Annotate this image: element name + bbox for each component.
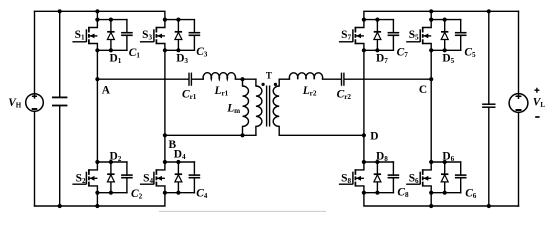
capacitor C1 (snubber) [121, 20, 133, 51]
scan artifact faint line (decorative) [159, 210, 326, 212]
wire node B to primary bottom [165, 134, 256, 136]
wire S4 cell top rail segment [165, 161, 195, 163]
capacitor C6 (snubber) [455, 162, 467, 193]
diode D7 (body diode) [374, 20, 381, 51]
wire S6 cell top rail segment [431, 161, 461, 163]
svg-text:C: C [419, 84, 427, 96]
transistor S5 (MOSFET) [406, 20, 431, 51]
capacitor Cr2 (series resonant) [342, 73, 344, 86]
wire S7 cell top rail segment [364, 19, 394, 21]
label minus terminal V_L [535, 116, 539, 118]
svg-text:A: A [102, 85, 111, 97]
wire leg 3 (S7-S8) with node D [363, 50, 365, 162]
wire S1 drain stub to top rail [96, 11, 98, 19]
wire S8 cell top rail segment [364, 161, 394, 163]
wire leg 2 (S3-S4) with node B [164, 50, 166, 162]
wire secondary to Lr2 [279, 78, 289, 80]
transistor S1 (MOSFET) [72, 20, 97, 51]
wire node A to Cr1 [97, 78, 188, 80]
diode D1 (body diode) [107, 20, 114, 51]
wire S8 cell bottom rail segment [364, 192, 394, 194]
transistor S7 (MOSFET) [339, 20, 364, 51]
label plus terminal V_L [534, 88, 539, 93]
junction dots S8 cell [362, 160, 366, 164]
junction dots S4 cell [163, 160, 167, 164]
transistor S6 (MOSFET) [406, 162, 431, 193]
junction dots S1 cell [95, 18, 99, 22]
capacitor C8 (snubber) [388, 162, 400, 193]
wire leg 4 (S5-S6) with node C [430, 50, 432, 162]
wire secondary bottom to node D [279, 134, 364, 136]
transistor S2 (MOSFET) [72, 162, 97, 193]
wire S2 cell top rail segment [97, 161, 127, 163]
diode D2 (body diode) [107, 162, 114, 193]
transformer polarity dot secondary [274, 83, 277, 86]
wire leg 1 (S1-S2) with node A [96, 50, 98, 162]
wire top rail right bridge [364, 11, 519, 19]
transformer T primary winding [256, 79, 262, 135]
transformer polarity dot primary [262, 83, 265, 86]
junction dots S3 cell [163, 18, 167, 22]
diode D5 (body diode) [441, 20, 448, 51]
wire Lr1 to primary [235, 78, 256, 80]
diode D3 (body diode) [175, 20, 182, 51]
diode D4 (body diode) [175, 162, 182, 193]
wire S2 source stub to bottom rail [96, 193, 98, 206]
junction dots input rails [58, 9, 62, 13]
wire S7 cell bottom rail segment [364, 49, 394, 51]
inductor Lr2 (series resonant) [289, 73, 322, 79]
diode D8 (body diode) [374, 162, 381, 193]
node D [362, 133, 366, 137]
wire S4 cell bottom rail segment [165, 192, 195, 194]
wire S6 source stub to bottom rail [430, 193, 432, 206]
wire S5 cell top rail segment [431, 19, 461, 21]
svg-text:T: T [266, 71, 272, 81]
wire bottom rail left bridge [35, 193, 165, 206]
junction dots right rails [429, 9, 433, 13]
capacitor Cr1 (series resonant) [189, 73, 191, 86]
wire bottom rail right bridge [364, 193, 519, 206]
junction dots S7 cell [362, 18, 366, 22]
wire S3 cell bottom rail segment [165, 49, 195, 51]
wire S5 drain stub to top rail [430, 11, 432, 19]
transistor S4 (MOSFET) [140, 162, 165, 193]
svg-text:B: B [169, 139, 177, 151]
wire Cr1 to Lr1 [192, 78, 203, 80]
transformer T secondary winding [273, 79, 279, 135]
junction dots S2 cell [95, 160, 99, 164]
transistor S8 (MOSFET) [339, 162, 364, 193]
wire Lr2 to Cr2 [323, 78, 341, 80]
junction dots S6 cell [429, 160, 433, 164]
transistor S3 (MOSFET) [140, 20, 165, 51]
capacitor output DC-link [482, 11, 495, 206]
node C [429, 77, 433, 81]
node Lm top junction [240, 77, 244, 81]
diode D6 (body diode) [441, 162, 448, 193]
transformer core [267, 86, 270, 127]
node B [163, 133, 167, 137]
wire S5 cell bottom rail segment [431, 49, 461, 51]
wire S6 cell bottom rail segment [431, 192, 461, 194]
wire S3 cell top rail segment [165, 19, 195, 21]
wire S1 cell bottom rail segment [97, 49, 127, 51]
node Lm bottom junction [240, 133, 244, 137]
wire Cr2 to node C [345, 78, 432, 80]
capacitor C3 (snubber) [189, 20, 201, 51]
wire top rail left bridge [35, 11, 165, 19]
capacitor C5 (snubber) [455, 20, 467, 51]
capacitor C4 (snubber) [189, 162, 201, 193]
inductor Lr1 (series resonant) [203, 73, 235, 80]
junction dots S5 cell [429, 18, 433, 22]
wire S2 cell bottom rail segment [97, 192, 127, 194]
capacitor C7 (snubber) [388, 20, 400, 51]
inductor Lm (magnetizing) [243, 79, 249, 135]
capacitor C2 (snubber) [121, 162, 133, 193]
svg-text:D: D [370, 131, 378, 143]
wire S1 cell top rail segment [97, 19, 127, 21]
source V_L (output voltage source) [509, 11, 528, 206]
node A [95, 77, 99, 81]
source V_H (input voltage source) [26, 11, 44, 206]
capacitor input DC-link [52, 11, 67, 206]
